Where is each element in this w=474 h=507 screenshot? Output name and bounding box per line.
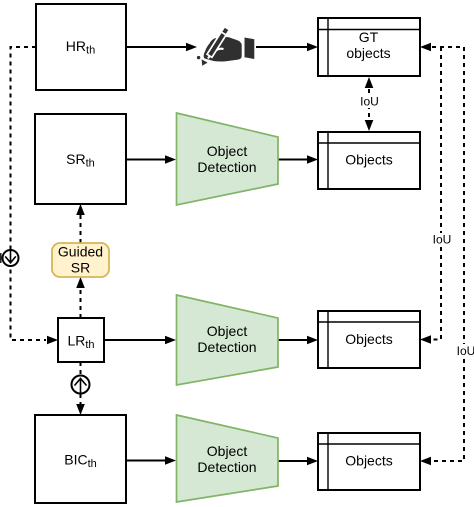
svg-text:Detection: Detection <box>197 459 256 475</box>
svg-text:Detection: Detection <box>197 159 256 175</box>
svg-text:GT: GT <box>359 29 379 45</box>
svg-text:objects: objects <box>346 45 390 61</box>
svg-text:Object: Object <box>207 443 248 459</box>
svg-text:Guided: Guided <box>58 244 103 260</box>
svg-text:Object: Object <box>207 323 248 339</box>
svg-text:SR: SR <box>71 260 90 276</box>
svg-text:Objects: Objects <box>345 453 392 469</box>
svg-text:Objects: Objects <box>345 331 392 347</box>
svg-text:Objects: Objects <box>345 152 392 168</box>
svg-text:IoU: IoU <box>433 233 452 247</box>
svg-text:IoU: IoU <box>457 344 474 358</box>
svg-text:IoU: IoU <box>360 95 379 109</box>
svg-text:Object: Object <box>207 143 248 159</box>
svg-text:Detection: Detection <box>197 339 256 355</box>
